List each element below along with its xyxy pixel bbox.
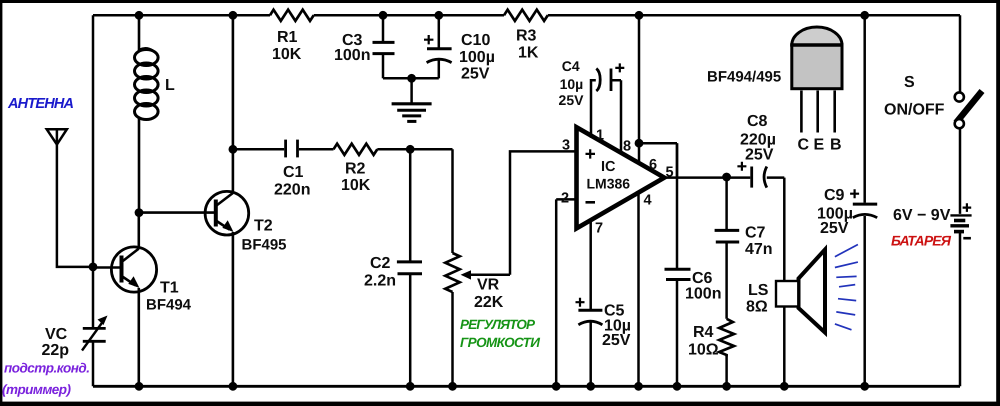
wire: left vertical (antenna/VC branch) [92, 15, 95, 386]
svg-text:6: 6 [649, 157, 657, 173]
resistor R2 [334, 144, 378, 155]
svg-text:C2: C2 [370, 255, 391, 272]
capacitor C3 [373, 15, 395, 78]
svg-text:T1: T1 [160, 280, 179, 297]
wire: pin 1 lead [591, 80, 596, 138]
svg-text:8: 8 [623, 139, 631, 155]
svg-text:C9: C9 [824, 187, 845, 204]
node: top rail / C10 [434, 11, 443, 20]
op-amp minus input marker [586, 201, 596, 204]
capacitor VC (trimmer) [82, 316, 108, 351]
svg-text:2: 2 [561, 191, 569, 207]
battery B1 [950, 203, 971, 238]
svg-text:10µ: 10µ [560, 76, 584, 92]
wire: R4 to ground rail [725, 357, 728, 387]
node: R2 wire / C2 [406, 145, 415, 154]
svg-text:B: B [830, 137, 842, 154]
wire: pin 2 to ground [556, 199, 576, 386]
op-amp U1 LM386 [577, 127, 665, 228]
svg-text:РЕГУЛЯТОР: РЕГУЛЯТОР [460, 317, 536, 332]
svg-text:25V: 25V [461, 66, 490, 83]
svg-text:8Ω: 8Ω [746, 299, 768, 316]
svg-text:БАТАРЕЯ: БАТАРЕЯ [891, 233, 952, 249]
svg-text:LS: LS [748, 282, 769, 299]
svg-text:25V: 25V [559, 92, 585, 108]
svg-text:R3: R3 [516, 28, 537, 45]
svg-text:10Ω: 10Ω [688, 342, 719, 359]
wire: output pin 5 [664, 176, 750, 179]
node: pin 8 branch [635, 139, 644, 148]
svg-text:22p: 22p [42, 342, 70, 359]
svg-text:25V: 25V [820, 220, 849, 237]
svg-text:C7: C7 [745, 225, 766, 242]
wire: R2 to VR top [377, 149, 452, 253]
antenna [47, 129, 91, 267]
wire: pin 4 to ground [637, 193, 640, 387]
svg-text:R4: R4 [693, 324, 714, 341]
svg-text:C8: C8 [747, 113, 768, 130]
node: T2 collector / C1 [229, 145, 238, 154]
capacitor C9 [850, 15, 877, 386]
node: top rail / C3 [379, 11, 388, 20]
node: top rail / coil [135, 11, 144, 20]
wire: pin 7 down to C5 [589, 220, 592, 309]
transistor package BF494/495 [790, 27, 843, 132]
wire: bottom ground rail [93, 385, 960, 388]
node: top rail / C9 [860, 11, 869, 20]
capacitor C10 [424, 15, 452, 78]
resistor R3 [504, 10, 548, 21]
svg-text:C6: C6 [692, 270, 713, 287]
capacitor C7 [715, 177, 740, 319]
capacitor C1 [233, 140, 334, 158]
svg-text:BF495: BF495 [242, 237, 287, 254]
node: top rail / supply drop [635, 11, 644, 20]
inductor L [135, 15, 159, 212]
svg-text:VR: VR [477, 277, 500, 294]
capacitor C6 [665, 143, 691, 386]
node: ground rail junctions [135, 382, 870, 391]
svg-text:C: C [798, 137, 810, 154]
wire: C3/C10 to ground [383, 77, 439, 80]
switch S [955, 91, 982, 128]
node: antenna to T1 base junction [89, 263, 98, 272]
svg-text:22K: 22K [474, 294, 504, 311]
capacitor C4 [596, 63, 624, 152]
node: output / C7 branch [722, 173, 731, 182]
svg-text:E: E [814, 137, 825, 154]
svg-text:10K: 10K [272, 46, 302, 63]
svg-text:BF494: BF494 [146, 297, 192, 314]
node: coil / T1 collector / T2 base junction [135, 208, 144, 217]
svg-text:T2: T2 [254, 218, 273, 235]
svg-text:(триммер): (триммер) [2, 382, 72, 397]
svg-text:IC: IC [601, 159, 616, 175]
wire: top V+ rail [93, 14, 960, 17]
capacitor C5 [576, 298, 603, 387]
potentiometer VR [445, 253, 510, 386]
transistor T1 [93, 213, 157, 387]
svg-text:R1: R1 [277, 29, 298, 46]
speaker LS [776, 178, 825, 387]
svg-text:2.2n: 2.2n [364, 273, 396, 290]
ground [392, 78, 432, 121]
svg-text:АНТЕННА: АНТЕННА [7, 96, 74, 112]
svg-text:100µ: 100µ [459, 49, 495, 66]
svg-text:ON/OFF: ON/OFF [884, 102, 945, 119]
svg-text:100n: 100n [334, 47, 370, 64]
svg-text:C4: C4 [562, 58, 580, 74]
resistor R4 [719, 319, 734, 357]
svg-text:10K: 10K [341, 177, 371, 194]
svg-text:C10: C10 [461, 32, 490, 49]
svg-text:25V: 25V [745, 147, 774, 164]
svg-text:6V − 9V: 6V − 9V [893, 207, 951, 224]
svg-text:47n: 47n [745, 241, 773, 258]
wire: pin 3 input from VR wiper [510, 151, 577, 274]
svg-text:C1: C1 [283, 164, 304, 181]
svg-text:VC: VC [45, 326, 68, 343]
svg-text:подстр.конд.: подстр.конд. [4, 361, 90, 376]
svg-text:R2: R2 [345, 161, 366, 178]
svg-text:220n: 220n [274, 182, 310, 199]
wire: right vertical (switch/battery branch) [959, 15, 962, 386]
node: C3/C10/ground junction [407, 74, 416, 83]
transistor T2 [139, 15, 249, 386]
resistor R1 [270, 10, 314, 21]
op-amp plus input marker [586, 149, 596, 158]
svg-text:1K: 1K [518, 45, 539, 62]
svg-text:L: L [165, 77, 175, 94]
capacitor C8 [737, 162, 784, 188]
svg-text:7: 7 [595, 221, 603, 237]
svg-text:4: 4 [644, 193, 652, 209]
svg-text:3: 3 [562, 138, 570, 154]
svg-text:S: S [904, 74, 915, 91]
svg-text:1: 1 [596, 128, 604, 144]
svg-text:100n: 100n [685, 286, 721, 303]
wire: pin 6 branch to output [639, 143, 677, 177]
svg-text:LM386: LM386 [587, 176, 631, 192]
node: top rail / T2 collector [229, 11, 238, 20]
wire: V+ rail to pin 8 area [638, 15, 641, 162]
svg-text:BF494/495: BF494/495 [707, 69, 781, 86]
svg-text:25V: 25V [602, 332, 631, 349]
svg-text:ГРОМКОСТИ: ГРОМКОСТИ [460, 335, 540, 350]
speaker sound waves [835, 245, 858, 330]
capacitor C2 [397, 149, 422, 386]
